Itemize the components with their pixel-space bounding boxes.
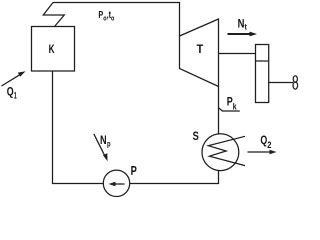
condenser coil [208, 136, 245, 165]
generator divider [256, 60, 269, 62]
svg-text:k: k [233, 101, 237, 111]
svg-text:N: N [100, 135, 107, 147]
pump impeller arrow [113, 183, 125, 185]
svg-text:P: P [131, 163, 137, 178]
svg-text:Q: Q [260, 133, 267, 147]
Pk leader [218, 108, 240, 112]
pump P [103, 170, 129, 196]
feed pipe [53, 71, 104, 184]
svg-text:S: S [193, 129, 199, 143]
svg-text:p: p [107, 138, 111, 148]
svg-text:Po,to: Po,to [98, 10, 114, 22]
load symbol 8 [293, 76, 297, 83]
turbine T [180, 19, 219, 87]
svg-text:1: 1 [14, 91, 17, 101]
svg-text:2: 2 [267, 140, 271, 150]
steam break zigzag [43, 3, 64, 27]
condensate pipe [130, 171, 219, 184]
boiler K [32, 27, 75, 72]
svg-text:K: K [49, 42, 55, 56]
steam line [53, 3, 180, 37]
condenser S [202, 134, 239, 171]
shaft [219, 53, 256, 55]
svg-text:N: N [238, 17, 245, 31]
svg-text:T: T [197, 42, 204, 56]
output line [269, 82, 293, 84]
svg-text:Q: Q [7, 85, 14, 99]
generator [256, 45, 269, 103]
Q2 arrow [248, 151, 272, 153]
Q1 arrow [2, 74, 21, 86]
exhaust pipe [218, 87, 220, 135]
Np arrow [94, 134, 105, 157]
svg-text:t: t [245, 22, 248, 32]
Nt arrow [228, 33, 252, 35]
